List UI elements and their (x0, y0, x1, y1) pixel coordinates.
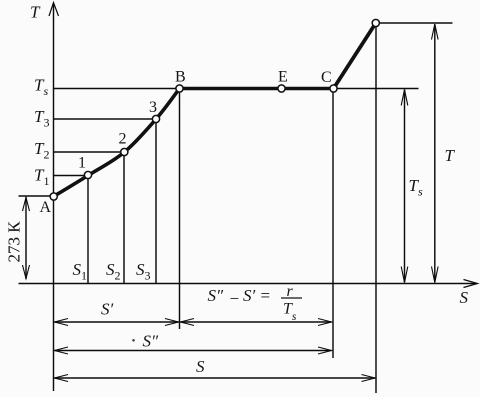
svg-text:S″: S″ (143, 332, 160, 351)
svg-text:3: 3 (149, 99, 157, 116)
svg-text:−: − (230, 289, 240, 308)
273K level line (19, 195, 54, 197)
S axis (19, 283, 478, 285)
273K dimension line (25, 197, 27, 279)
dropline B (179, 89, 181, 330)
T axis (53, 3, 55, 391)
svg-text:1: 1 (78, 155, 86, 172)
svg-text:=: = (261, 286, 271, 305)
svg-text:S′: S′ (101, 300, 114, 319)
point B (176, 85, 183, 92)
svg-text:S″: S″ (208, 286, 225, 305)
Ts dimension arrow (404, 90, 406, 283)
T1 level line (54, 175, 89, 177)
T dimension arrow (434, 24, 436, 283)
curve A-1-2-3-B (54, 89, 180, 197)
svg-text:E: E (278, 69, 288, 86)
dropline top point (375, 23, 377, 393)
point E (278, 85, 285, 92)
svg-text:T: T (445, 146, 456, 165)
Ts level line right of C (334, 88, 419, 90)
S dimension line (55, 377, 376, 379)
svg-text:2: 2 (119, 131, 127, 148)
svg-text:T: T (30, 3, 41, 22)
dropline point 3 (155, 119, 157, 284)
svg-text:273 К: 273 К (5, 221, 24, 263)
svg-text:C: C (321, 69, 332, 86)
S' dimension line (55, 321, 179, 323)
svg-text:A: A (40, 199, 52, 216)
svg-text:B: B (175, 69, 186, 86)
T2 level line (54, 151, 125, 153)
S'' dimension line (55, 350, 332, 352)
point 3 (152, 115, 159, 122)
dropline C (332, 89, 334, 359)
T3 level line (54, 118, 157, 120)
dot before S'' (132, 339, 135, 342)
S''-S' dimension line (181, 321, 332, 323)
dropline point 2 (123, 152, 125, 284)
point 2 (121, 148, 128, 155)
svg-text:S: S (460, 288, 469, 307)
point 1 (84, 171, 91, 178)
dropline point 1 (87, 176, 89, 284)
top level line (376, 22, 453, 24)
T axis arrowhead (49, 3, 59, 17)
svg-text:S′: S′ (243, 286, 256, 305)
S axis arrowhead (464, 280, 478, 288)
top point (372, 19, 379, 26)
point C (330, 85, 337, 92)
svg-text:S: S (196, 357, 205, 376)
line C-top (334, 23, 376, 89)
Ts level line left (54, 88, 180, 90)
point A (50, 193, 57, 200)
plateau B-E-C (180, 87, 334, 90)
formula fraction bar (281, 297, 302, 299)
